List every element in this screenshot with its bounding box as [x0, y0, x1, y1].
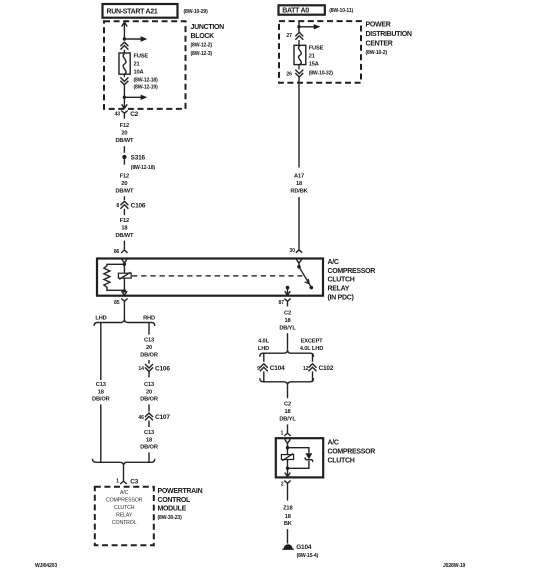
svg-text:CONTROL: CONTROL [112, 520, 137, 526]
svg-text:43: 43 [115, 112, 121, 118]
clutch coil element [281, 454, 293, 461]
wire [312, 371, 314, 381]
connector C106 pin 14 [138, 364, 170, 372]
wire label F12 20 DB/WT [115, 174, 134, 195]
wire up-arrow to RUN-START A21 [122, 22, 128, 39]
relay coil element [118, 272, 131, 279]
svg-text:27: 27 [286, 33, 292, 39]
svg-text:4.0L: 4.0L [258, 339, 269, 345]
svg-text:8: 8 [116, 203, 119, 209]
svg-text:85: 85 [114, 300, 120, 306]
wire down-arrow leaving junction block [122, 97, 128, 108]
svg-text:COMPRESSOR: COMPRESSOR [328, 448, 376, 455]
svg-text:(8W-12-18): (8W-12-18) [131, 165, 156, 171]
ground G104 [282, 544, 318, 559]
svg-text:CONTROL: CONTROL [158, 497, 192, 504]
wire label C2 18 DB/YL [279, 310, 296, 331]
svg-text:J028W-19: J028W-19 [443, 563, 466, 569]
svg-text:18: 18 [284, 409, 290, 415]
PCM label [158, 488, 203, 521]
svg-text:15A: 15A [309, 61, 319, 67]
clutch pin 2 connector [281, 481, 291, 489]
svg-text:RD/BK: RD/BK [290, 189, 308, 195]
wire [123, 466, 125, 478]
junction dot [123, 289, 126, 292]
wire A17 down from PDC [298, 77, 300, 167]
clamping diode loop wire [288, 448, 309, 469]
svg-text:(8W-12-3): (8W-12-3) [191, 51, 213, 57]
svg-text:C107: C107 [155, 414, 170, 421]
svg-text:F12: F12 [120, 123, 129, 129]
svg-text:(8W-12-2): (8W-12-2) [191, 43, 213, 49]
wire [263, 371, 265, 381]
svg-text:DB/OR: DB/OR [140, 445, 158, 451]
connector C106 pin 8 [116, 201, 146, 209]
wire [123, 196, 125, 200]
svg-text:DISTRIBUTION: DISTRIBUTION [366, 31, 412, 38]
clutch coil wire [287, 448, 289, 469]
feed box BATT A0 [279, 5, 325, 14]
svg-text:EXCEPT: EXCEPT [301, 339, 324, 345]
svg-text:A/C: A/C [120, 490, 129, 496]
svg-text:20: 20 [121, 181, 127, 187]
svg-text:(8W-12-19): (8W-12-19) [134, 85, 159, 91]
junction dot [123, 37, 126, 40]
svg-text:POWERTRAIN: POWERTRAIN [158, 488, 203, 495]
junction dot [297, 25, 300, 28]
svg-text:18: 18 [146, 437, 152, 443]
connector C104 pin 9 [257, 364, 285, 372]
svg-text:(8W-15-4): (8W-15-4) [297, 553, 319, 559]
svg-text:DB/OR: DB/OR [92, 397, 110, 403]
clutch label [328, 439, 376, 464]
svg-text:4.0L LHD: 4.0L LHD [300, 346, 323, 352]
svg-text:18: 18 [121, 225, 127, 231]
powertrain control module dashed box [95, 487, 154, 545]
switch common dot [297, 265, 301, 269]
wire label C13 18 DB/OR (LHD) [92, 382, 110, 403]
RHD branch wire [148, 323, 150, 335]
svg-text:DB/WT: DB/WT [115, 138, 134, 144]
svg-text:POWER: POWER [366, 21, 391, 28]
svg-text:A17: A17 [294, 174, 304, 180]
svg-text:C104: C104 [270, 365, 285, 372]
svg-text:21: 21 [309, 54, 315, 60]
wire [298, 27, 300, 32]
wire entry arrow at pin 1 [285, 439, 291, 447]
svg-text:BLOCK: BLOCK [191, 33, 215, 40]
junction dot [123, 96, 126, 99]
svg-text:CLUTCH: CLUTCH [114, 505, 135, 511]
wire [148, 372, 150, 378]
svg-text:BK: BK [284, 521, 293, 527]
switch blade [299, 267, 313, 290]
svg-text:DB/OR: DB/OR [140, 397, 158, 403]
svg-text:DB/WT: DB/WT [115, 233, 134, 239]
svg-text:(8W-10-11): (8W-10-11) [329, 8, 353, 14]
junction dot [286, 446, 289, 449]
branch arrow right [124, 95, 147, 100]
svg-text:RUN-START A21: RUN-START A21 [107, 9, 158, 16]
wire [123, 50, 125, 53]
wire [148, 452, 150, 462]
wire label F12 18 DB/WT [115, 218, 134, 239]
svg-text:20: 20 [121, 130, 127, 136]
connector C102 pin 12 [303, 364, 334, 372]
svg-text:WJI04203: WJI04203 [35, 563, 57, 569]
wire exit arrow at pin 2 [285, 468, 291, 476]
svg-text:(8W-10-32): (8W-10-32) [309, 71, 334, 77]
svg-text:RELAY: RELAY [328, 286, 350, 293]
svg-text:18: 18 [284, 318, 290, 324]
svg-text:RHD: RHD [143, 315, 155, 321]
svg-text:20: 20 [146, 389, 152, 395]
svg-text:C106: C106 [155, 365, 170, 372]
junction dot [123, 263, 126, 266]
svg-text:A/C: A/C [328, 439, 339, 446]
connector chevrons down pin 26 [286, 65, 303, 78]
wire label Z18 18 BK [283, 506, 293, 527]
in-line connector chevrons up (fuse feed) [120, 42, 128, 49]
node 4.0L LHD [258, 339, 270, 352]
svg-text:F12: F12 [120, 218, 129, 224]
svg-text:30: 30 [289, 248, 295, 254]
wire [298, 40, 300, 45]
relay coil wire [123, 264, 125, 291]
relay pin 85 connector [114, 299, 128, 307]
svg-text:COMPRESSOR: COMPRESSOR [328, 268, 376, 275]
svg-text:G104: G104 [296, 544, 312, 551]
svg-text:MODULE: MODULE [158, 505, 187, 512]
svg-text:S316: S316 [131, 154, 146, 161]
svg-text:FUSE: FUSE [134, 54, 149, 60]
svg-text:14: 14 [138, 366, 144, 372]
svg-text:DB/YL: DB/YL [279, 325, 296, 331]
svg-text:9: 9 [257, 366, 260, 372]
svg-text:RELAY: RELAY [116, 513, 133, 519]
svg-text:LHD: LHD [95, 315, 106, 321]
wire label F12 20 DB/WT [115, 123, 134, 144]
fuse value label [134, 54, 159, 91]
zener diode [305, 453, 313, 462]
svg-text:COMPRESSOR: COMPRESSOR [106, 498, 143, 504]
wire [148, 404, 150, 411]
LHD branch wire [100, 404, 102, 462]
branch arrow right [124, 36, 147, 41]
svg-text:C102: C102 [319, 365, 334, 372]
wire [123, 85, 125, 97]
junction dot [286, 467, 289, 470]
feed box RUN-START A21 [103, 4, 178, 18]
svg-text:C106: C106 [131, 202, 146, 209]
svg-text:C13: C13 [96, 382, 106, 388]
PDC label [366, 21, 412, 56]
svg-text:26: 26 [286, 72, 292, 78]
wire exit arrow at pin 87 [285, 288, 291, 296]
svg-text:18: 18 [285, 514, 291, 520]
svg-text:87: 87 [279, 300, 285, 306]
wire label C13 20 DB/OR [140, 338, 158, 359]
connector C2 pin 43 [115, 111, 139, 119]
svg-text:1: 1 [116, 479, 119, 485]
svg-text:20: 20 [146, 345, 152, 351]
wire [123, 306, 125, 319]
wire 4.0L branch [263, 353, 265, 362]
svg-text:DB/YL: DB/YL [279, 417, 296, 423]
connector C3 pin 1 [116, 478, 139, 486]
PCM internal label A/C compressor clutch relay control [106, 490, 143, 526]
wire label A17 18 RD/BK [290, 174, 308, 195]
wire [287, 385, 289, 398]
wire label C13 20 DB/OR [140, 382, 158, 403]
svg-text:21: 21 [134, 62, 140, 68]
branch arrow right [299, 24, 320, 29]
svg-text:86: 86 [114, 249, 120, 255]
svg-text:C13: C13 [144, 382, 154, 388]
power distribution center dashed box [279, 21, 361, 83]
svg-text:CENTER: CENTER [366, 40, 393, 47]
svg-text:18: 18 [296, 181, 302, 187]
relay coil resistor [104, 264, 125, 290]
relay pin 30 connector [289, 246, 302, 254]
svg-text:C13: C13 [144, 338, 154, 344]
svg-text:BATT A0: BATT A0 [282, 7, 309, 14]
svg-text:C2: C2 [284, 402, 291, 408]
in-line connector chevrons down (fuse output) [120, 74, 128, 85]
junction block label [191, 24, 225, 57]
wire [287, 424, 289, 429]
connector C107 pin 46 [138, 413, 170, 421]
svg-text:CLUTCH: CLUTCH [328, 277, 355, 284]
wire except-4.0L branch [312, 353, 314, 362]
svg-text:DB/WT: DB/WT [115, 189, 134, 195]
svg-text:Z18: Z18 [283, 506, 292, 512]
wire [287, 333, 289, 350]
wire entry arrow at pin 86 [122, 259, 128, 264]
svg-text:C3: C3 [130, 479, 138, 486]
svg-text:FUSE: FUSE [309, 46, 324, 52]
junction block dashed box [104, 21, 186, 109]
clutch pin 1 connector [281, 430, 291, 437]
A/C compressor clutch box [276, 438, 323, 477]
relay pin 87 connector [279, 299, 291, 307]
A/C compressor clutch relay box [97, 259, 323, 296]
switch 87 contact dot [286, 286, 290, 290]
wire label C2 18 DB/YL [279, 402, 296, 423]
wire [148, 360, 150, 364]
wire [287, 489, 289, 501]
relay pin 86 connector [114, 246, 128, 255]
svg-text:LHD: LHD [258, 346, 269, 352]
svg-text:DB/OR: DB/OR [140, 352, 158, 358]
svg-text:JUNCTION: JUNCTION [191, 24, 225, 31]
svg-text:(8W-10-2): (8W-10-2) [366, 50, 388, 56]
wire [148, 421, 150, 427]
wire entry arrow at pin 30 [296, 259, 302, 267]
svg-text:46: 46 [138, 415, 144, 421]
svg-text:C2: C2 [130, 111, 138, 118]
svg-text:10A: 10A [134, 69, 144, 75]
svg-text:(IN PDC): (IN PDC) [328, 295, 354, 302]
wire label C13 18 DB/OR [140, 430, 158, 451]
node EXCEPT 4.0L LHD [300, 339, 323, 352]
wire [123, 241, 125, 247]
svg-text:F12: F12 [120, 174, 129, 180]
wire exit arrow at pin 85 [122, 291, 128, 295]
LHD branch wire [100, 323, 102, 381]
option split fork [94, 319, 155, 326]
svg-text:C2: C2 [284, 310, 291, 316]
wire [298, 197, 300, 246]
svg-text:A/C: A/C [328, 259, 339, 266]
svg-text:18: 18 [98, 389, 104, 395]
svg-text:(8W-10-29): (8W-10-29) [184, 9, 209, 15]
wire [298, 21, 300, 27]
svg-text:C13: C13 [144, 430, 154, 436]
svg-text:12: 12 [303, 366, 309, 372]
svg-text:2: 2 [281, 482, 284, 488]
wire [287, 529, 289, 543]
relay label [328, 259, 376, 302]
fuse value label [309, 46, 334, 77]
svg-text:CLUTCH: CLUTCH [328, 457, 355, 464]
connector chevrons up pin 27 [286, 32, 303, 39]
option merge fork [93, 459, 155, 466]
fuse 21 15A (PDC) [294, 45, 306, 64]
svg-text:1: 1 [281, 431, 284, 437]
svg-text:(8W-30-23): (8W-30-23) [158, 515, 183, 521]
fuse 21 10A (junction block) [119, 53, 130, 74]
wire [123, 209, 125, 215]
option split fork [260, 350, 314, 357]
svg-text:(8W-12-18): (8W-12-18) [134, 78, 159, 84]
relay actuation dashed link [132, 275, 303, 277]
wire [123, 146, 125, 153]
option merge fork [260, 378, 314, 385]
splice S316 [122, 154, 155, 171]
